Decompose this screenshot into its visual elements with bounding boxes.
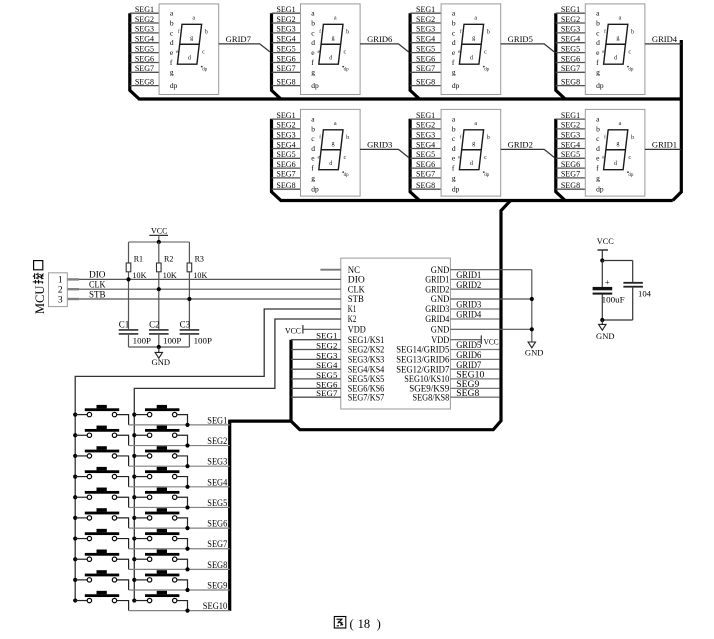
svg-text:d: d [311,38,315,47]
svg-text:SEG6: SEG6 [276,54,295,63]
svg-text:SEG4: SEG4 [416,35,435,44]
svg-text:dp: dp [628,68,634,73]
svg-text:GRID4: GRID4 [425,314,449,324]
svg-text:SEG8: SEG8 [456,388,480,398]
svg-text:g: g [311,173,315,182]
svg-text:SEG8: SEG8 [207,560,227,570]
svg-text:VCC: VCC [151,225,168,235]
svg-text:g: g [170,68,174,77]
svg-text:c: c [344,154,347,161]
svg-text:SEG4: SEG4 [416,140,435,149]
svg-text:c: c [484,154,487,161]
svg-text:a: a [619,120,622,127]
svg-text:(: ( [350,617,354,631]
svg-text:SEG5: SEG5 [561,150,580,159]
svg-text:SEG4: SEG4 [276,35,295,44]
svg-text:SEG6: SEG6 [561,54,580,63]
svg-text:SEG5: SEG5 [416,150,435,159]
svg-text:C1: C1 [119,319,130,329]
svg-text:SEG5: SEG5 [561,44,580,53]
svg-text:b: b [487,134,490,141]
svg-text:g: g [616,140,619,147]
svg-text:dp: dp [452,81,460,90]
svg-text:GRID1: GRID1 [456,270,481,280]
svg-text:GRID6: GRID6 [456,350,481,360]
svg-text:SEG1: SEG1 [207,415,227,425]
svg-text:10K: 10K [133,271,147,280]
svg-text:dp: dp [484,68,490,73]
svg-text:GRID4: GRID4 [456,310,481,320]
svg-text:SEG1: SEG1 [276,111,295,120]
svg-text:b: b [596,124,600,133]
svg-text:SEG2: SEG2 [316,341,337,351]
svg-text:g: g [616,34,619,41]
svg-text:SEG7: SEG7 [561,170,580,179]
svg-text:SEG2: SEG2 [561,121,580,130]
svg-text:SEG10/KS10: SEG10/KS10 [404,374,449,384]
svg-text:SEG5: SEG5 [316,370,337,380]
svg-text:GRID2: GRID2 [425,284,449,294]
svg-text:dp: dp [344,173,350,178]
svg-text:SEG1: SEG1 [416,111,435,120]
svg-text:b: b [596,18,600,27]
svg-text:GND: GND [525,347,544,357]
svg-text:GRID6: GRID6 [367,35,392,44]
svg-text:VCC: VCC [597,236,614,246]
svg-text:dp: dp [596,185,604,194]
svg-text:b: b [346,28,349,35]
svg-text:SEG2/KS2: SEG2/KS2 [348,345,385,355]
svg-text:SEG6: SEG6 [207,519,227,529]
svg-text:10K: 10K [193,271,207,280]
svg-text:b: b [311,124,315,133]
svg-text:SEG10: SEG10 [203,601,228,611]
svg-text:SEG2: SEG2 [207,436,227,446]
svg-text:g: g [472,34,475,41]
svg-text:g: g [311,68,315,77]
svg-text:dp: dp [484,173,490,178]
svg-text:d: d [596,144,600,153]
svg-text:g: g [472,140,475,147]
svg-text:3: 3 [58,295,63,305]
svg-text:SEG1: SEG1 [135,5,154,14]
svg-text:b: b [205,28,208,35]
svg-text:SEG6: SEG6 [416,54,435,63]
svg-text:SEG7: SEG7 [561,64,580,73]
svg-text:SEG3: SEG3 [316,350,337,360]
svg-text:104: 104 [638,288,652,298]
svg-text:SEG5: SEG5 [276,44,295,53]
svg-text:a: a [619,15,622,22]
svg-text:SEG5: SEG5 [207,498,227,508]
svg-text:SEG3: SEG3 [276,25,295,34]
svg-text:GND: GND [596,331,615,341]
svg-text:SEG1: SEG1 [561,111,580,120]
svg-text:SEG7: SEG7 [316,388,337,398]
svg-text:SEG10: SEG10 [456,370,485,380]
svg-text:SEG7: SEG7 [135,64,154,73]
svg-text:R2: R2 [164,255,173,264]
svg-text:C3: C3 [180,319,191,329]
svg-text:SEG1: SEG1 [316,331,337,341]
svg-text:d: d [452,144,456,153]
svg-text:a: a [474,15,477,22]
svg-text:SEG5: SEG5 [135,44,154,53]
svg-text:SEG7: SEG7 [276,64,295,73]
svg-text:b: b [631,28,634,35]
svg-text:SEG8: SEG8 [416,77,435,86]
svg-text:b: b [170,18,174,27]
svg-text:SEG7: SEG7 [207,539,227,549]
svg-text:a: a [474,120,477,127]
svg-text:SEG2: SEG2 [416,15,435,24]
svg-text:g: g [190,34,193,41]
svg-text:SEG8: SEG8 [135,77,154,86]
svg-text:10K: 10K [163,271,177,280]
svg-text:18: 18 [358,617,371,631]
svg-text:a: a [334,15,337,22]
svg-text:dp: dp [596,81,604,90]
svg-text:SEG5/KS5: SEG5/KS5 [348,374,385,384]
svg-text:SEG4: SEG4 [561,140,580,149]
svg-text:GRID1: GRID1 [652,141,677,150]
svg-text:+: + [605,277,610,287]
svg-text:SEG3: SEG3 [561,131,580,140]
svg-text:SEG3/KS3: SEG3/KS3 [348,355,385,365]
svg-text:g: g [596,173,600,182]
svg-text:g: g [596,68,600,77]
svg-text:2: 2 [58,286,63,296]
svg-text:SEG2: SEG2 [276,15,295,24]
svg-text:c: c [628,154,631,161]
svg-text:NC: NC [348,265,360,275]
svg-text:DIO: DIO [348,275,366,285]
svg-text:SEG12/GRID7: SEG12/GRID7 [396,364,449,374]
svg-text:SEG3: SEG3 [135,25,154,34]
svg-text:b: b [311,18,315,27]
svg-text:100P: 100P [163,336,182,346]
svg-text:SEG8: SEG8 [561,77,580,86]
svg-text:100uF: 100uF [602,295,625,305]
svg-text:STB: STB [89,289,106,299]
svg-text:SEG8/KS8: SEG8/KS8 [413,392,450,402]
svg-text:SEG2: SEG2 [135,15,154,24]
svg-text:b: b [452,124,456,133]
svg-text:dp: dp [311,185,319,194]
svg-text:SEG14/GRID5: SEG14/GRID5 [396,345,449,355]
svg-text:SEG1: SEG1 [276,5,295,14]
svg-text:1: 1 [58,276,63,286]
svg-text:GRID7: GRID7 [226,35,251,44]
svg-text:100P: 100P [133,336,152,346]
svg-text:GRID7: GRID7 [456,360,481,370]
svg-text:GRID3: GRID3 [456,300,481,310]
svg-text:g: g [452,68,456,77]
svg-text:b: b [631,134,634,141]
svg-text:SEG5: SEG5 [416,44,435,53]
svg-text:GRID3: GRID3 [367,141,392,150]
svg-text:SEG1: SEG1 [416,5,435,14]
svg-text:SEG8: SEG8 [276,181,295,190]
svg-text:SEG7: SEG7 [416,170,435,179]
svg-text:SEG9: SEG9 [207,581,227,591]
svg-text:GND: GND [431,294,450,304]
svg-text:SEG6: SEG6 [276,160,295,169]
svg-text:d: d [311,144,315,153]
svg-text:GRID3: GRID3 [425,304,449,314]
svg-text:SEG13/GRID6: SEG13/GRID6 [396,355,449,365]
svg-text:100P: 100P [194,336,213,346]
svg-text:d: d [170,38,174,47]
svg-text:g: g [452,173,456,182]
svg-text:SEG7: SEG7 [416,64,435,73]
svg-text:SEG4/KS4: SEG4/KS4 [348,364,385,374]
svg-text:STB: STB [348,294,364,304]
svg-text:dp: dp [344,68,350,73]
svg-text:GND: GND [152,357,171,367]
svg-text:a: a [334,120,337,127]
svg-text:GRID5: GRID5 [508,35,533,44]
svg-text:SEG2: SEG2 [416,121,435,130]
svg-text:K2: K2 [348,314,357,324]
svg-text:SEG6: SEG6 [416,160,435,169]
svg-text:d: d [596,38,600,47]
svg-text:SEG8: SEG8 [416,181,435,190]
svg-text:GRID2: GRID2 [508,141,533,150]
svg-text:SEG6: SEG6 [561,160,580,169]
svg-text:SEG6: SEG6 [135,54,154,63]
svg-text:dp: dp [202,68,208,73]
svg-text:SEG2: SEG2 [276,121,295,130]
svg-text:b: b [452,18,456,27]
svg-text:dp: dp [311,81,319,90]
svg-text:): ) [377,617,381,631]
svg-text:SEG4: SEG4 [276,140,295,149]
svg-text:b: b [346,134,349,141]
svg-text:c: c [202,48,205,55]
svg-text:dp: dp [628,173,634,178]
svg-text:GRID4: GRID4 [652,35,678,44]
svg-text:R1: R1 [134,255,143,264]
svg-text:SEG4: SEG4 [561,35,580,44]
svg-text:MCU: MCU [33,286,47,314]
svg-text:K1: K1 [348,304,357,314]
svg-text:g: g [332,34,335,41]
svg-text:SEG3: SEG3 [276,131,295,140]
svg-text:SEG7/KS7: SEG7/KS7 [348,392,385,402]
svg-text:GRID1: GRID1 [425,275,449,285]
svg-text:c: c [344,48,347,55]
svg-text:SEG2: SEG2 [561,15,580,24]
svg-text:b: b [487,28,490,35]
svg-text:SEG7: SEG7 [276,170,295,179]
svg-text:CLK: CLK [348,284,365,294]
svg-text:SEG4: SEG4 [207,477,227,487]
svg-text:SEG3: SEG3 [561,25,580,34]
svg-text:C2: C2 [149,319,160,329]
svg-text:a: a [192,15,195,22]
svg-text:SEG3: SEG3 [416,131,435,140]
svg-text:GND: GND [431,324,450,334]
svg-text:GRID2: GRID2 [456,280,481,290]
svg-text:SEG8: SEG8 [276,77,295,86]
svg-text:g: g [332,140,335,147]
svg-text:SEG1/KS1: SEG1/KS1 [348,335,385,345]
svg-text:VDD: VDD [348,324,366,334]
svg-text:GND: GND [431,265,450,275]
svg-text:SEG4: SEG4 [316,360,338,370]
svg-text:SEG8: SEG8 [561,181,580,190]
svg-text:c: c [484,48,487,55]
svg-text:SEG4: SEG4 [135,35,154,44]
svg-text:DIO: DIO [89,270,106,280]
svg-text:VDD: VDD [431,335,449,345]
svg-text:VCC: VCC [484,336,499,346]
svg-text:SEG1: SEG1 [561,5,580,14]
svg-text:SEG5: SEG5 [276,150,295,159]
svg-text:c: c [628,48,631,55]
svg-text:d: d [452,38,456,47]
svg-text:dp: dp [170,81,178,90]
svg-text:dp: dp [452,185,460,194]
svg-text:SEG3: SEG3 [416,25,435,34]
svg-text:VCC: VCC [285,326,301,336]
svg-text:CLK: CLK [89,280,106,290]
svg-text:R3: R3 [195,255,204,264]
svg-text:GRID5: GRID5 [456,340,481,350]
svg-text:SEG3: SEG3 [207,457,227,467]
